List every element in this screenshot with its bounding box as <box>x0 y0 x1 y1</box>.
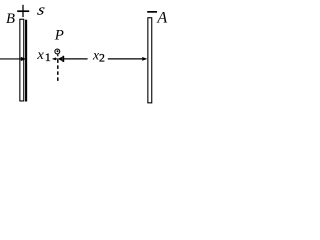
point P (small circle with center dot) <box>55 49 60 54</box>
x2 left arrowhead (pointing left at dashed line) <box>58 57 63 61</box>
plus sign (+) charge mark above plate B <box>17 10 29 12</box>
x1 left outside arrowhead (pointing right into plate S) <box>21 57 27 61</box>
x2 dimension shaft (left segment) <box>64 58 88 60</box>
minus bar above plate A <box>147 11 157 13</box>
svg-text:1: 1 <box>45 50 51 64</box>
vertical end-bar of x2 left arrowhead <box>62 56 64 62</box>
svg-text:A: A <box>156 10 167 27</box>
dashed vertical line below P <box>57 59 59 81</box>
x1 dimension: left outside arrow shaft <box>0 58 21 60</box>
x2 right arrowhead (pointing right at plate A) <box>142 57 147 61</box>
short dash below circle <box>57 54 59 56</box>
plate S (thick solid line) <box>25 20 27 102</box>
svg-text:P: P <box>54 27 64 43</box>
x2 dimension shaft (right segment) <box>108 58 142 60</box>
svg-text:2: 2 <box>99 50 105 64</box>
plate A (narrow outlined rectangle) <box>148 18 152 103</box>
svg-text:x: x <box>92 48 99 63</box>
x1 right outside arrow (small, pointing left) <box>52 57 56 60</box>
svg-text:B: B <box>6 11 15 27</box>
plate B (narrow outlined rectangle) <box>20 19 24 101</box>
svg-text:x: x <box>36 47 44 62</box>
